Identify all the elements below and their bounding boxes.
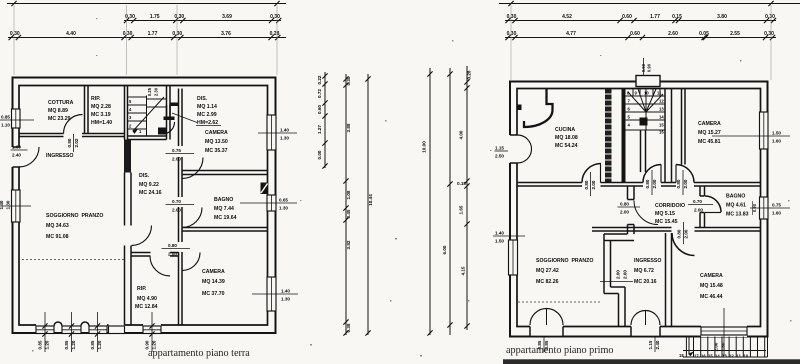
- bottom scan band: [503, 359, 800, 364]
- svg-text:10: 10: [644, 91, 649, 96]
- flue black bar (spine1 top): [124, 140, 131, 173]
- svg-text:0.45: 0.45: [346, 209, 351, 218]
- window RW2 right wall (bagno): [240, 195, 297, 211]
- svg-text:MC 13.83: MC 13.83: [726, 212, 749, 218]
- ingresso door arc at zigzag: [634, 201, 658, 225]
- corridoio twin door arcs: [643, 165, 694, 196]
- svg-text:MC 19.64: MC 19.64: [214, 215, 237, 221]
- svg-text:MQ 14.39: MQ 14.39: [202, 279, 225, 285]
- svg-text:0.30: 0.30: [123, 31, 133, 37]
- wall bagno/camera14.39: [182, 228, 268, 232]
- svg-text:HM=1.40: HM=1.40: [91, 120, 112, 126]
- svg-text:INGRESSO: INGRESSO: [634, 258, 661, 264]
- LEFT PLAN GROUP: [0, 1, 373, 359]
- room label INGRESSO right: [634, 258, 661, 285]
- svg-text:0.60: 0.60: [317, 105, 322, 114]
- roller bumps on bottom wall: [54, 322, 89, 326]
- extension hairlines right: [511, 5, 771, 80]
- svg-text:MC 54.24: MC 54.24: [555, 143, 578, 149]
- svg-text:MQ 18.08: MQ 18.08: [555, 135, 578, 141]
- svg-text:MC 23.29: MC 23.29: [48, 116, 71, 122]
- svg-text:0.90: 0.90: [647, 63, 652, 72]
- svg-text:10: 10: [744, 353, 749, 358]
- zigzag wall bottom stub to wall: [619, 287, 626, 327]
- svg-text:0.60: 0.60: [622, 14, 632, 20]
- corridoio/ingresso horizontal wall: [592, 228, 672, 232]
- svg-text:1.40: 1.40: [280, 128, 289, 133]
- room label BAGNO right: [726, 194, 749, 218]
- svg-text:0.60: 0.60: [630, 31, 640, 37]
- svg-text:0.75: 0.75: [172, 148, 181, 153]
- svg-text:1.27: 1.27: [317, 125, 322, 134]
- room label INGRESSO: [46, 153, 73, 159]
- room label SOGGIORNO PRANZO right: [536, 258, 593, 285]
- stair top tiny dims: [147, 87, 159, 96]
- room label DIS (1.14): [197, 96, 218, 126]
- svg-text:DIS.: DIS.: [197, 96, 208, 102]
- svg-text:0.70: 0.70: [693, 199, 702, 204]
- svg-text:MC 82.26: MC 82.26: [536, 279, 559, 285]
- svg-text:3.69: 3.69: [222, 14, 232, 20]
- svg-text:MQ 9.22: MQ 9.22: [139, 182, 159, 188]
- svg-text:0.80: 0.80: [584, 180, 589, 189]
- svg-text:0.85: 0.85: [38, 340, 43, 349]
- svg-text:0.05: 0.05: [699, 31, 709, 37]
- svg-text:COTTURA: COTTURA: [48, 100, 74, 106]
- svg-text:MQ 7.44: MQ 7.44: [214, 206, 234, 212]
- svg-text:2.60: 2.60: [668, 31, 678, 37]
- svg-text:1.30: 1.30: [279, 206, 288, 211]
- vertical chain middle left (6.00): [442, 68, 453, 335]
- camera door arc + rotated label: [672, 222, 695, 256]
- stair exit door arc: [163, 122, 175, 134]
- svg-text:15: 15: [708, 353, 713, 358]
- svg-text:1.20: 1.20: [71, 340, 76, 349]
- svg-text:4.15: 4.15: [461, 266, 466, 275]
- svg-text:2.40: 2.40: [12, 153, 21, 158]
- room label CAMERA (14.39): [202, 269, 225, 297]
- dimension row 1 right: [505, 14, 776, 23]
- svg-text:CAMERA: CAMERA: [202, 269, 225, 275]
- svg-text:MC 3.19: MC 3.19: [91, 112, 111, 118]
- svg-text:1.15: 1.15: [495, 146, 504, 151]
- svg-text:1.00: 1.00: [12, 145, 21, 150]
- svg-text:0.85: 0.85: [1, 115, 10, 120]
- svg-text:0.38: 0.38: [346, 323, 351, 332]
- cucina door arc + rotated label: [582, 164, 601, 197]
- svg-text:0.28: 0.28: [270, 31, 280, 37]
- partition under cottura/rip horizontal with door gap: [19, 134, 125, 137]
- svg-text:10.44: 10.44: [368, 194, 373, 206]
- exterior stair bottom right: [683, 337, 768, 358]
- svg-text:0.75: 0.75: [772, 203, 781, 208]
- svg-text:CAMERA: CAMERA: [205, 130, 228, 136]
- bagno door arc + label: [166, 199, 203, 228]
- svg-text:0.80: 0.80: [677, 229, 682, 238]
- svg-text:2.30: 2.30: [154, 87, 159, 96]
- svg-text:MC 20.16: MC 20.16: [634, 279, 657, 285]
- svg-text:0.72: 0.72: [317, 89, 322, 98]
- svg-text:2.00: 2.00: [591, 180, 596, 189]
- svg-text:MC 37.70: MC 37.70: [202, 291, 225, 297]
- partition cottura/rip vertical: [85, 86, 89, 134]
- dashed line soggiorno right plan: [518, 301, 602, 303]
- svg-text:0.30: 0.30: [10, 31, 20, 37]
- entrance door gap + arc: [11, 145, 40, 168]
- chimney bump on top wall: [636, 58, 660, 87]
- svg-text:DIS.: DIS.: [139, 173, 150, 179]
- bagno shower black square: [261, 183, 269, 195]
- svg-text:CAMERA: CAMERA: [698, 121, 721, 127]
- svg-text:0.00: 0.00: [317, 150, 322, 159]
- svg-text:1.60: 1.60: [772, 139, 781, 144]
- svg-text:6.00: 6.00: [442, 245, 447, 254]
- svg-text:1.30: 1.30: [6, 200, 11, 209]
- svg-text:MC 46.44: MC 46.44: [700, 294, 723, 300]
- main horizontal wall y182 with door gaps: [517, 183, 761, 187]
- svg-text:2.60: 2.60: [623, 270, 628, 279]
- svg-text:0.65: 0.65: [279, 198, 288, 203]
- svg-text:18: 18: [679, 353, 684, 358]
- svg-text:1.40: 1.40: [0, 200, 4, 209]
- svg-text:2.40: 2.40: [655, 340, 660, 349]
- svg-text:16: 16: [701, 353, 706, 358]
- svg-text:CAMERA: CAMERA: [700, 273, 723, 279]
- room label SOGGIORNO PRANZO: [46, 213, 103, 240]
- svg-text:2.02: 2.02: [74, 138, 79, 147]
- svg-text:MC 35.37: MC 35.37: [205, 148, 228, 154]
- rotated dim 2.00/2.60 on zigzag wall: [600, 270, 633, 282]
- extension hairlines: [14, 5, 277, 75]
- svg-text:17: 17: [694, 353, 699, 358]
- svg-text:2.00: 2.00: [616, 270, 621, 279]
- svg-text:11: 11: [737, 353, 742, 358]
- svg-text:MQ 6.72: MQ 6.72: [634, 268, 654, 274]
- svg-text:0.15: 0.15: [672, 14, 682, 20]
- svg-text:1.50: 1.50: [495, 239, 504, 244]
- window W1 left wall: [0, 109, 34, 128]
- svg-text:MQ 8.89: MQ 8.89: [48, 108, 68, 114]
- svg-text:MC 91.08: MC 91.08: [46, 234, 69, 240]
- svg-text:3.76: 3.76: [221, 31, 231, 37]
- svg-text:0.30: 0.30: [765, 14, 775, 20]
- svg-text:3.92: 3.92: [346, 240, 351, 249]
- vertical chain inner left (segments): [457, 66, 472, 330]
- vertical chain A (top-right of plan): [317, 72, 328, 169]
- stairs enclosure walls: [125, 86, 171, 140]
- svg-text:2.00: 2.00: [683, 179, 688, 188]
- french door left wall (cucina): [495, 135, 532, 163]
- outer wall (left plan): [13, 78, 276, 334]
- svg-text:MC 12.84: MC 12.84: [135, 304, 158, 310]
- svg-text:2.00: 2.00: [172, 157, 181, 162]
- vertical chain B: [343, 74, 351, 336]
- svg-text:1.77: 1.77: [148, 31, 158, 37]
- camera13.5 door arc + label: [166, 148, 204, 179]
- window RW1 right wall (camera 13.50): [258, 115, 297, 150]
- svg-text:0.30: 0.30: [172, 31, 182, 37]
- svg-text:4.52: 4.52: [562, 14, 572, 20]
- room label CAMERA (13.50): [205, 130, 228, 154]
- svg-text:MC 24.16: MC 24.16: [139, 190, 162, 196]
- svg-text:1.20: 1.20: [45, 340, 50, 349]
- svg-text:1.30: 1.30: [280, 136, 289, 141]
- stair newel black block: [640, 118, 648, 126]
- window left wall (soggiorno): [493, 231, 525, 276]
- bagno/camera horizontal wall: [695, 228, 761, 232]
- svg-text:2.55: 2.55: [730, 31, 740, 37]
- svg-text:0.30: 0.30: [507, 31, 517, 37]
- svg-text:0.80: 0.80: [67, 138, 72, 147]
- svg-text:2.00: 2.00: [684, 229, 689, 238]
- svg-text:13: 13: [659, 107, 664, 112]
- svg-text:2.00: 2.00: [172, 208, 181, 213]
- svg-text:0.80: 0.80: [645, 179, 650, 188]
- vertical chain outer left (10.00): [422, 68, 433, 336]
- room label CORRIDOIO: [655, 203, 685, 225]
- leader line HM=2.62: [172, 113, 197, 123]
- rip top wall with door gap: [131, 253, 179, 257]
- svg-text:0.85: 0.85: [90, 340, 95, 349]
- svg-text:0.30: 0.30: [346, 76, 351, 85]
- svg-text:13: 13: [722, 353, 727, 358]
- camera14.39 door arc + label: [162, 243, 201, 271]
- vertical chain C (overall 10.44): [365, 74, 373, 336]
- svg-text:MC 45.81: MC 45.81: [698, 139, 721, 145]
- svg-text:0.30: 0.30: [270, 14, 280, 20]
- outer wall (right plan): [510, 82, 768, 337]
- svg-text:2.50: 2.50: [495, 154, 504, 159]
- bagno/corridoio vertical wall: [700, 186, 705, 228]
- svg-text:0.80: 0.80: [620, 202, 629, 207]
- svg-text:BAGNO: BAGNO: [214, 197, 233, 203]
- bottom wall windows B1-B5: [36, 324, 161, 335]
- corridoio stair door label: [618, 202, 641, 215]
- svg-text:1.20: 1.20: [97, 340, 102, 349]
- svg-text:15: 15: [659, 123, 664, 128]
- dimension row 1: [124, 14, 281, 23]
- kitchen niche fixture: [524, 89, 553, 128]
- svg-text:MQ 27.42: MQ 27.42: [536, 268, 559, 274]
- svg-text:MC 2.99: MC 2.99: [197, 112, 217, 118]
- svg-text:14: 14: [715, 353, 720, 358]
- bottom window dim lines + labels: [45, 312, 152, 352]
- svg-text:CUCINA: CUCINA: [555, 127, 575, 133]
- dis closet stub walls: [164, 103, 180, 121]
- svg-text:MQ 4.90: MQ 4.90: [137, 296, 157, 302]
- zigzag wall soggiorno/ingresso: upper stub with door gap: [628, 186, 635, 234]
- window right wall top (camera 15.27): [712, 112, 790, 149]
- bagno door arc + label: [688, 196, 721, 213]
- svg-text:1.77: 1.77: [650, 14, 660, 20]
- svg-text:1.10: 1.10: [1, 123, 10, 128]
- svg-text:MQ 13.50: MQ 13.50: [205, 139, 228, 145]
- dimension row 0 right (cut off): [499, 1, 800, 6]
- room label CAMERA (15.27): [698, 121, 721, 145]
- svg-text:1.60: 1.60: [772, 211, 781, 216]
- room label COTTURA: [48, 100, 74, 122]
- svg-text:0.30: 0.30: [764, 31, 774, 37]
- RIGHT PLAN GROUP: [422, 1, 800, 364]
- hatched flue wall (cucina/stairs): [605, 89, 612, 183]
- ingresso french door bottom: [631, 311, 660, 353]
- spine2 wall with door gaps: [179, 89, 183, 326]
- room label DIS (9.22): [139, 173, 162, 196]
- window right wall bottom (bagno): [750, 197, 790, 219]
- bagno shower rotated dim: [752, 201, 757, 215]
- svg-text:4.00: 4.00: [459, 130, 464, 139]
- svg-text:0.28: 0.28: [467, 70, 472, 79]
- svg-text:INGRESSO: INGRESSO: [46, 153, 73, 159]
- svg-text:3.88: 3.88: [346, 123, 351, 132]
- stair enclosure walls: [622, 89, 626, 183]
- svg-text:0.85: 0.85: [64, 340, 69, 349]
- svg-text:MC 15.45: MC 15.45: [655, 219, 678, 225]
- rip door arc: [150, 256, 170, 276]
- room label CUCINA: [555, 127, 578, 149]
- camera bottom window: [701, 308, 747, 356]
- svg-text:14: 14: [659, 115, 664, 120]
- svg-text:0.25: 0.25: [147, 87, 152, 96]
- svg-text:MQ 34.63: MQ 34.63: [46, 223, 69, 229]
- svg-text:0.80: 0.80: [676, 179, 681, 188]
- svg-text:4.40: 4.40: [66, 31, 76, 37]
- svg-text:1.65: 1.65: [459, 205, 464, 214]
- svg-text:0.80: 0.80: [168, 243, 177, 248]
- svg-text:1.75: 1.75: [150, 14, 160, 20]
- svg-text:11: 11: [657, 91, 662, 96]
- soggiorno french door bottom: [530, 309, 563, 353]
- svg-text:MQ 15.48: MQ 15.48: [700, 283, 723, 289]
- room label RIP (2.28): [91, 96, 112, 126]
- dimension row 2 right: [505, 31, 776, 40]
- svg-text:0.50: 0.50: [641, 63, 646, 72]
- svg-text:RIP.: RIP.: [137, 286, 147, 292]
- dimension row 2: [8, 31, 286, 40]
- svg-text:appartamento piano terra: appartamento piano terra: [148, 348, 250, 359]
- stair bottom dark block: [158, 128, 166, 135]
- svg-text:1.30: 1.30: [281, 297, 290, 302]
- svg-text:0.15: 0.15: [457, 181, 466, 186]
- svg-text:CORRIDOIO: CORRIDOIO: [655, 203, 685, 209]
- room label RIP (4.90): [135, 286, 158, 310]
- stairs (left plan): [128, 96, 167, 137]
- svg-text:16: 16: [659, 130, 664, 135]
- svg-text:MQ 15.27: MQ 15.27: [698, 130, 721, 136]
- svg-text:4.77: 4.77: [566, 31, 576, 37]
- svg-text:2.00: 2.00: [620, 210, 629, 215]
- window W2 left wall: [0, 190, 31, 222]
- zigzag wall lower vertical: [604, 234, 625, 294]
- dashed line soggiorno: [22, 259, 124, 261]
- svg-text:2.00: 2.00: [168, 252, 177, 257]
- svg-text:SOGGIORNO PRANZO: SOGGIORNO PRANZO: [46, 213, 103, 219]
- svg-text:12: 12: [729, 353, 734, 358]
- room label CAMERA (15.48): [700, 273, 723, 300]
- svg-text:0.30: 0.30: [507, 14, 517, 20]
- cottura door arc + rotated label: [64, 115, 83, 153]
- spine1 wall below flue: [125, 173, 132, 326]
- svg-text:appartamento piano primo: appartamento piano primo: [506, 345, 614, 356]
- svg-text:12: 12: [659, 99, 664, 104]
- svg-text:1.50: 1.50: [772, 131, 781, 136]
- svg-text:MQ 5.15: MQ 5.15: [655, 211, 675, 217]
- svg-text:3.80: 3.80: [717, 14, 727, 20]
- svg-text:1.40: 1.40: [495, 231, 504, 236]
- svg-text:RIP.: RIP.: [91, 96, 101, 102]
- svg-text:MQ 1.14: MQ 1.14: [197, 104, 217, 110]
- svg-text:2.00: 2.00: [652, 179, 657, 188]
- stairs (right plan): [626, 89, 666, 131]
- svg-text:0.22: 0.22: [317, 75, 322, 84]
- svg-text:BAGNO: BAGNO: [726, 194, 745, 200]
- wall camera13.5/bagno: [182, 171, 268, 175]
- window RW3 right wall (camera 14.39): [252, 277, 298, 311]
- svg-text:1.08: 1.08: [346, 190, 351, 199]
- svg-text:MQ 2.28: MQ 2.28: [91, 104, 111, 110]
- svg-text:0.70: 0.70: [172, 199, 181, 204]
- dimension row 0 (top, cut off): [7, 1, 286, 6]
- zigzag wall horizontal jog: [604, 234, 634, 241]
- ingresso/camera vertical wall: [666, 233, 672, 327]
- room label BAGNO: [214, 197, 237, 221]
- svg-text:1.40: 1.40: [281, 289, 290, 294]
- svg-text:MQ 4.61: MQ 4.61: [726, 203, 746, 209]
- svg-text:1.15: 1.15: [648, 340, 653, 349]
- svg-text:SOGGIORNO PRANZO: SOGGIORNO PRANZO: [536, 258, 593, 264]
- svg-text:10.00: 10.00: [422, 141, 427, 153]
- svg-text:2.00: 2.00: [694, 208, 703, 213]
- spine1 door arc (soggiorno/dis): [132, 226, 152, 246]
- svg-text:0.30: 0.30: [174, 14, 184, 20]
